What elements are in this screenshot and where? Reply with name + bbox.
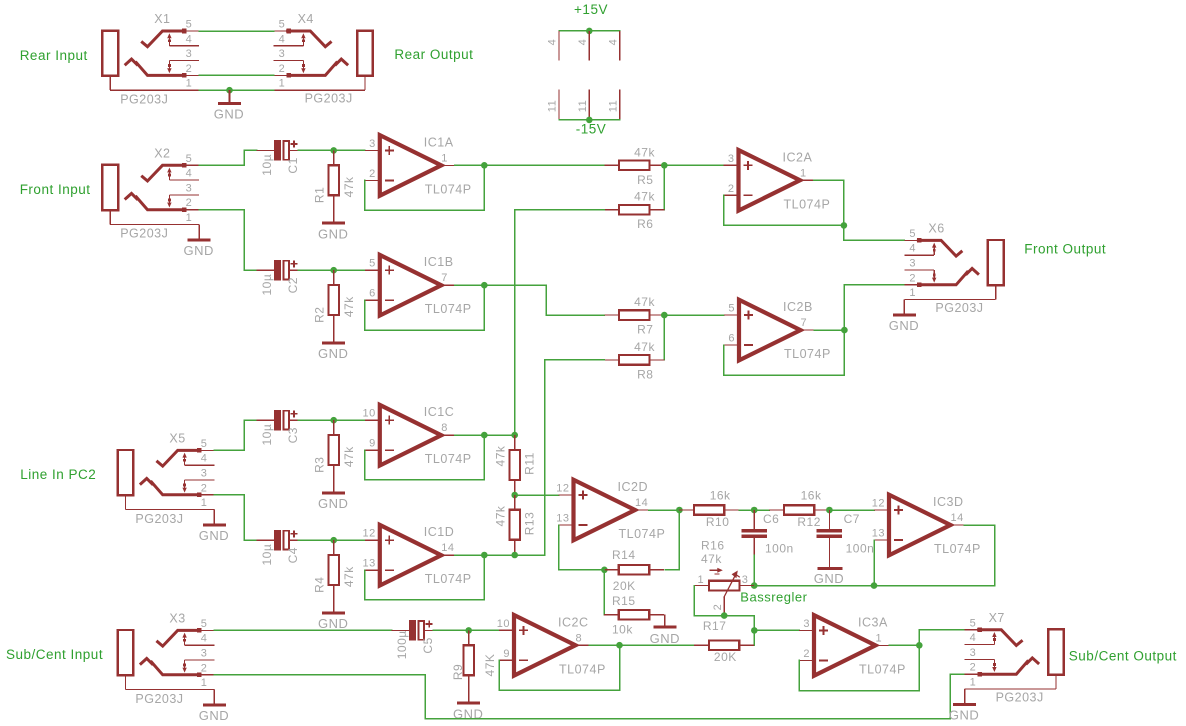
svg-text:5: 5	[186, 153, 193, 165]
svg-text:R17: R17	[703, 619, 727, 633]
IC3A pin stubs	[799, 629, 814, 631]
svg-text:IC3A: IC3A	[858, 615, 888, 629]
svg-text:20K: 20K	[613, 579, 636, 593]
IC2D pin stubs	[559, 494, 574, 496]
X6 pin 1 sleeve	[995, 285, 997, 299]
svg-text:IC3D: IC3D	[933, 495, 963, 509]
wire X3 tip to C5	[214, 629, 391, 631]
X4 pin 2 ring contact	[336, 59, 347, 64]
wire C7 to gnd	[828, 538, 830, 567]
wire R7 to IC2B+	[664, 314, 724, 316]
svg-text:2: 2	[279, 63, 286, 75]
R16 wiper pin 2	[723, 597, 725, 616]
svg-text:X2: X2	[154, 146, 170, 160]
wire X2 ring to C2	[199, 210, 256, 271]
X5 pin 1 sleeve	[124, 495, 126, 509]
svg-text:GND: GND	[650, 631, 680, 646]
wire C4 to IC1D+	[298, 539, 365, 541]
resistor R9 47K	[468, 630, 470, 645]
wire IC2D output	[649, 509, 680, 511]
wire IC2B feedback	[724, 330, 845, 375]
wire IC2B to X6 ring	[844, 285, 904, 330]
X3 pin 4 switch contact	[184, 635, 186, 645]
op-amp IC2A TL074P	[739, 150, 801, 211]
IC3 pin 11 VCC- stub	[619, 89, 621, 120]
svg-text:4: 4	[909, 243, 916, 255]
svg-text:3: 3	[201, 468, 208, 480]
svg-text:TL074P: TL074P	[934, 542, 981, 556]
svg-text:47k: 47k	[634, 295, 655, 309]
svg-text:X7: X7	[989, 611, 1005, 625]
svg-text:9: 9	[369, 438, 376, 450]
X3 pin 2 ring contact	[141, 659, 152, 664]
op-amp IC1C TL074P	[380, 405, 442, 466]
svg-text:47K: 47K	[483, 654, 497, 677]
svg-text:47k: 47k	[701, 552, 722, 566]
svg-text:14: 14	[951, 512, 964, 524]
svg-text:C1: C1	[286, 157, 300, 173]
svg-text:1: 1	[201, 677, 208, 689]
wire R12 to IC3D+	[829, 509, 874, 511]
svg-text:2: 2	[970, 662, 977, 674]
svg-text:GND: GND	[318, 616, 348, 631]
svg-text:GND: GND	[199, 708, 229, 723]
wire R5 to IC2A+	[664, 164, 723, 166]
svg-text:C4: C4	[286, 547, 300, 563]
svg-text:10: 10	[497, 618, 510, 630]
svg-text:IC2B: IC2B	[783, 300, 813, 314]
ground for X2	[188, 238, 211, 241]
resistor R5 47k	[604, 164, 619, 166]
svg-text:X3: X3	[169, 611, 185, 625]
junction +15V	[586, 28, 593, 35]
svg-text:R4: R4	[312, 577, 326, 593]
resistor R13 47k	[514, 495, 516, 510]
connector X6 PG203J jack body	[988, 240, 1004, 285]
op-amp IC3A TL074P	[814, 615, 876, 676]
svg-text:1: 1	[970, 677, 977, 689]
junction R12/C7	[826, 507, 833, 514]
svg-text:4: 4	[607, 39, 619, 46]
svg-text:9: 9	[503, 648, 510, 660]
svg-text:Line In PC2: Line In PC2	[20, 467, 96, 482]
junction R11 top	[511, 432, 518, 439]
junction IC2B out	[841, 327, 848, 334]
svg-text:47k: 47k	[634, 340, 655, 354]
svg-text:3: 3	[279, 48, 286, 60]
svg-text:2: 2	[712, 604, 724, 611]
connector X7 PG203J jack body	[1048, 629, 1064, 674]
junction IC2A fb	[841, 222, 848, 229]
connector X1 PG203J jack body	[102, 31, 118, 76]
junction IC3D fb	[871, 582, 878, 589]
wire X1-X4 tip net	[199, 30, 273, 32]
IC1B pin stubs	[365, 269, 380, 271]
junction R5/R6	[661, 162, 668, 169]
connector X5 PG203J jack body	[118, 450, 134, 495]
resistor R17 20K	[694, 644, 709, 646]
svg-text:10µ: 10µ	[260, 424, 274, 446]
X1 pin 5 tip contact	[142, 31, 183, 47]
svg-text:Sub/Cent Input: Sub/Cent Input	[6, 647, 103, 662]
svg-text:5: 5	[909, 228, 916, 240]
wire C5 to IC2C+	[433, 629, 499, 631]
svg-text:X6: X6	[928, 221, 944, 235]
wire IC2C output	[589, 644, 694, 646]
X2 pin 5 tip contact	[142, 165, 183, 181]
X7 pin 3 switch contact	[965, 658, 995, 660]
svg-text:3: 3	[186, 182, 193, 194]
svg-text:IC1C: IC1C	[424, 405, 454, 419]
IC2A pin stubs	[724, 164, 739, 166]
svg-text:3: 3	[728, 153, 735, 165]
X5 pin 2 ring contact	[141, 479, 152, 484]
svg-text:TL074P: TL074P	[784, 197, 831, 211]
svg-text:47k: 47k	[342, 566, 356, 587]
svg-text:X1: X1	[154, 12, 170, 26]
svg-text:14: 14	[635, 497, 648, 509]
svg-text:PG203J: PG203J	[120, 227, 168, 241]
svg-text:Sub/Cent Output: Sub/Cent Output	[1069, 649, 1177, 664]
svg-text:4: 4	[970, 632, 977, 644]
svg-text:R2: R2	[312, 307, 326, 323]
wire R10 to R12	[739, 509, 754, 511]
svg-text:47k: 47k	[342, 176, 356, 197]
op-amp IC1B TL074P	[380, 255, 442, 316]
wire pot pin1 to wiper node	[694, 586, 754, 631]
svg-text:R12: R12	[797, 515, 821, 529]
op-amp IC3D TL074P	[889, 495, 951, 556]
X1 pin 3 switch contact	[169, 60, 199, 62]
resistor R1 47k	[333, 150, 335, 165]
resistor R11 47k	[514, 435, 516, 450]
wire IC2A feedback	[724, 195, 844, 225]
IC2 pin 4 VCC+ stub	[588, 31, 590, 61]
X4 pin 5 tip contact	[274, 30, 289, 32]
svg-text:IC2C: IC2C	[558, 615, 588, 629]
wire -15V rail	[559, 119, 620, 121]
wire node to R17	[753, 630, 755, 645]
svg-text:Bassregler: Bassregler	[740, 590, 807, 605]
X7 pin 5 tip contact	[965, 629, 980, 631]
svg-text:C5: C5	[421, 637, 435, 653]
wire R14 to IC2D out	[665, 510, 679, 570]
junction R11/R13	[511, 492, 518, 499]
svg-text:5: 5	[369, 258, 376, 270]
svg-text:1: 1	[186, 78, 193, 90]
svg-text:GND: GND	[318, 346, 348, 361]
ground R1	[333, 210, 335, 222]
wire +15V rail	[559, 30, 620, 32]
svg-text:Front Output: Front Output	[1024, 242, 1106, 257]
junction C2/R2	[330, 267, 337, 274]
wire node to IC3A+	[754, 629, 799, 631]
wire C2 to IC1B+	[298, 269, 365, 271]
svg-text:20K: 20K	[714, 650, 737, 664]
X4 pin 4 switch contact	[274, 45, 304, 47]
junction R7/R8	[661, 312, 668, 319]
svg-text:R6: R6	[637, 217, 653, 231]
svg-text:1: 1	[441, 152, 448, 164]
X5 pin 3 switch contact	[185, 479, 215, 481]
svg-text:C2: C2	[286, 277, 300, 293]
X5 pin 5 tip contact	[158, 450, 199, 466]
svg-text:R9: R9	[451, 664, 465, 680]
svg-text:TL074P: TL074P	[619, 527, 666, 541]
IC3 pin 4 VCC+ stub	[619, 31, 621, 61]
svg-text:1: 1	[876, 632, 883, 644]
svg-text:2: 2	[369, 168, 376, 180]
svg-text:GND: GND	[318, 226, 348, 241]
svg-text:IC1A: IC1A	[424, 135, 454, 149]
svg-text:R3: R3	[312, 457, 326, 473]
IC1D pin stubs	[365, 539, 380, 541]
junction -15V	[586, 117, 593, 124]
wire IC3A output	[889, 644, 919, 646]
wire divider to IC2D+	[515, 494, 559, 496]
svg-text:GND: GND	[889, 318, 919, 333]
IC1A pin stubs	[365, 149, 380, 151]
wire IC1B feedback	[365, 285, 485, 330]
junction IC2C out	[616, 642, 623, 649]
IC2 pin 11 VCC- stub	[588, 89, 590, 120]
svg-text:GND: GND	[214, 107, 244, 122]
svg-text:8: 8	[441, 422, 448, 434]
junction R10/C6	[751, 507, 758, 514]
svg-text:47k: 47k	[342, 296, 356, 317]
svg-text:GND: GND	[949, 708, 979, 723]
wire R15 branch	[603, 570, 605, 615]
resistor R2 47k	[333, 270, 335, 285]
svg-text:4: 4	[546, 39, 558, 46]
wire C3 to IC1C+	[298, 419, 365, 421]
wire IC2B output	[814, 329, 844, 331]
svg-text:10µ: 10µ	[260, 274, 274, 296]
wire junction to R12	[754, 509, 769, 511]
svg-text:-15V: -15V	[576, 122, 607, 137]
wire IC1C feedback	[365, 435, 485, 480]
svg-text:1: 1	[201, 497, 208, 509]
junction IC1D out	[481, 552, 488, 559]
svg-text:1: 1	[909, 287, 916, 299]
op-amp IC2B TL074P	[739, 300, 801, 361]
svg-text:TL074P: TL074P	[425, 452, 472, 466]
junction R14 left	[601, 567, 608, 574]
X6 pin 3 switch contact	[904, 269, 934, 271]
wire X5 tip to C3	[214, 420, 256, 450]
ground X7	[953, 703, 976, 706]
svg-text:TL074P: TL074P	[425, 302, 472, 316]
wire IC3A feedback	[799, 645, 919, 691]
svg-text:4: 4	[201, 453, 208, 465]
capacitor C3 10µ (polarized)	[257, 419, 274, 421]
svg-text:C7: C7	[844, 512, 860, 526]
svg-text:13: 13	[872, 528, 885, 540]
wire IC1D output	[455, 554, 545, 556]
svg-text:PG203J: PG203J	[935, 301, 983, 315]
svg-text:3: 3	[970, 647, 977, 659]
resistor R14 20K	[604, 569, 619, 571]
wire IC2A output to X6 tip	[814, 180, 905, 240]
svg-text:R14: R14	[612, 548, 636, 562]
capacitor C6 100n	[753, 510, 755, 529]
X4 pin 3 switch contact	[274, 60, 304, 62]
svg-text:2: 2	[728, 183, 735, 195]
svg-text:R5: R5	[637, 173, 653, 187]
svg-text:14: 14	[441, 542, 454, 554]
svg-text:2: 2	[201, 662, 208, 674]
svg-text:PG203J: PG203J	[135, 692, 183, 706]
wire R8 right riser	[663, 315, 665, 360]
svg-text:11: 11	[546, 100, 558, 112]
ground R4	[333, 600, 335, 612]
X6 pin 5 tip contact	[904, 239, 919, 241]
X3 pin 5 tip contact	[158, 630, 199, 646]
svg-text:2: 2	[201, 482, 208, 494]
resistor R15 10k	[604, 614, 619, 616]
IC2C pin stubs	[499, 629, 514, 631]
X1 pin 2 ring contact	[126, 59, 137, 64]
svg-text:47k: 47k	[494, 445, 508, 466]
capacitor C1 10µ (polarized)	[257, 149, 274, 151]
svg-text:10k: 10k	[612, 622, 633, 636]
svg-text:3: 3	[186, 48, 193, 60]
junction IC1C out	[481, 432, 488, 439]
capacitor C2 10µ (polarized)	[257, 269, 274, 271]
capacitor C4 10µ (polarized)	[257, 539, 274, 541]
svg-text:1: 1	[279, 78, 286, 90]
ground C7	[817, 567, 842, 570]
X5 pin 4 switch contact	[184, 455, 186, 465]
svg-text:R16: R16	[701, 539, 725, 553]
svg-text:12: 12	[872, 498, 885, 510]
wire IC1A output	[455, 164, 605, 166]
svg-text:R8: R8	[637, 367, 653, 381]
IC1C pin stubs	[365, 419, 380, 421]
wire IC1B output	[455, 285, 605, 315]
svg-text:TL074P: TL074P	[859, 662, 906, 676]
X2 pin 4 switch contact	[168, 170, 170, 180]
svg-text:PG203J: PG203J	[135, 512, 183, 526]
X6 pin 4 switch contact	[904, 254, 934, 256]
svg-text:4: 4	[577, 39, 589, 46]
junction C1/R1	[330, 147, 337, 154]
ground for X5	[203, 523, 226, 526]
wire R8 left to IC1D column	[545, 360, 605, 555]
svg-text:12: 12	[363, 528, 376, 540]
svg-text:TL074P: TL074P	[559, 662, 606, 676]
svg-text:PG203J: PG203J	[120, 92, 168, 106]
wire IC3A to X7 tip	[919, 630, 964, 646]
svg-text:7: 7	[441, 272, 448, 284]
svg-text:5: 5	[728, 303, 735, 315]
svg-text:13: 13	[363, 558, 376, 570]
svg-text:10µ: 10µ	[260, 544, 274, 566]
wire C1 to IC1A+	[298, 149, 365, 151]
wire X2 tip to C1	[199, 150, 256, 165]
X6 pin 2 ring contact	[967, 269, 978, 274]
svg-text:R10: R10	[706, 515, 730, 529]
svg-text:4: 4	[186, 168, 193, 180]
IC3D pin stubs	[874, 509, 889, 511]
capacitor C5 100µ (polarized)	[392, 629, 409, 631]
R16 adjust arrow	[710, 569, 721, 571]
svg-text:GND: GND	[814, 571, 844, 586]
svg-text:1: 1	[186, 212, 193, 224]
ground R9	[468, 690, 470, 702]
X7 pin 4 switch contact	[965, 644, 995, 646]
capacitor C7 100n	[828, 510, 830, 529]
ground for X3	[203, 703, 226, 706]
svg-text:+15V: +15V	[574, 2, 608, 17]
resistor R10 16k	[679, 509, 694, 511]
X2 pin 2 ring contact	[126, 193, 137, 198]
svg-text:5: 5	[201, 618, 208, 630]
svg-text:R13: R13	[522, 512, 536, 536]
svg-text:10µ: 10µ	[260, 154, 274, 176]
svg-text:47k: 47k	[494, 505, 508, 526]
wire IC2D- to R14	[559, 525, 605, 570]
svg-text:2: 2	[186, 197, 193, 209]
X2 pin 3 switch contact	[169, 194, 199, 196]
X3 pin 1 sleeve	[124, 675, 126, 689]
svg-text:4: 4	[186, 33, 193, 45]
svg-text:PG203J: PG203J	[996, 691, 1044, 705]
wire IC3D output loop	[754, 525, 995, 586]
junction IC1B out	[481, 282, 488, 289]
svg-text:5: 5	[279, 19, 286, 31]
wire R6 right riser	[663, 165, 665, 209]
wire IC1C output	[455, 434, 515, 436]
svg-text:13: 13	[556, 513, 569, 525]
junction IC3A input node	[751, 627, 758, 634]
svg-text:2: 2	[186, 63, 193, 75]
svg-text:4: 4	[201, 633, 208, 645]
svg-text:GND: GND	[184, 243, 214, 258]
svg-text:3: 3	[742, 574, 749, 586]
wire IC1D feedback	[365, 555, 485, 600]
svg-text:5: 5	[970, 617, 977, 629]
svg-text:5: 5	[186, 19, 193, 31]
svg-text:6: 6	[369, 288, 376, 300]
wire IC3D- riser	[873, 540, 875, 586]
resistor R4 47k	[333, 540, 335, 555]
svg-text:47k: 47k	[634, 190, 655, 204]
svg-text:GND: GND	[199, 528, 229, 543]
junction IC2D out	[676, 507, 683, 514]
op-amp IC1A TL074P	[380, 135, 442, 196]
svg-text:11: 11	[607, 100, 619, 112]
junction R13 bottom	[511, 552, 518, 559]
svg-text:100n: 100n	[765, 542, 794, 556]
ground R15	[653, 626, 676, 629]
resistor R7 47k	[604, 314, 619, 316]
svg-text:Front Input: Front Input	[20, 182, 91, 197]
ground R2	[333, 330, 335, 342]
wire X5 ring to C4	[214, 495, 256, 540]
IC1 pin 4 VCC+ stub	[558, 31, 560, 61]
svg-text:100n: 100n	[846, 542, 875, 556]
svg-text:12: 12	[556, 483, 569, 495]
svg-text:Rear Output: Rear Output	[394, 47, 473, 62]
svg-text:C3: C3	[286, 427, 300, 443]
junction C4/R4	[330, 537, 337, 544]
IC1 pin 11 VCC- stub	[558, 89, 560, 120]
wire X1-X4 ring net	[199, 74, 273, 76]
junction IC1A out	[481, 162, 488, 169]
potentiometer R16 47k (Bassregler)	[694, 585, 709, 587]
svg-text:16k: 16k	[710, 489, 731, 503]
